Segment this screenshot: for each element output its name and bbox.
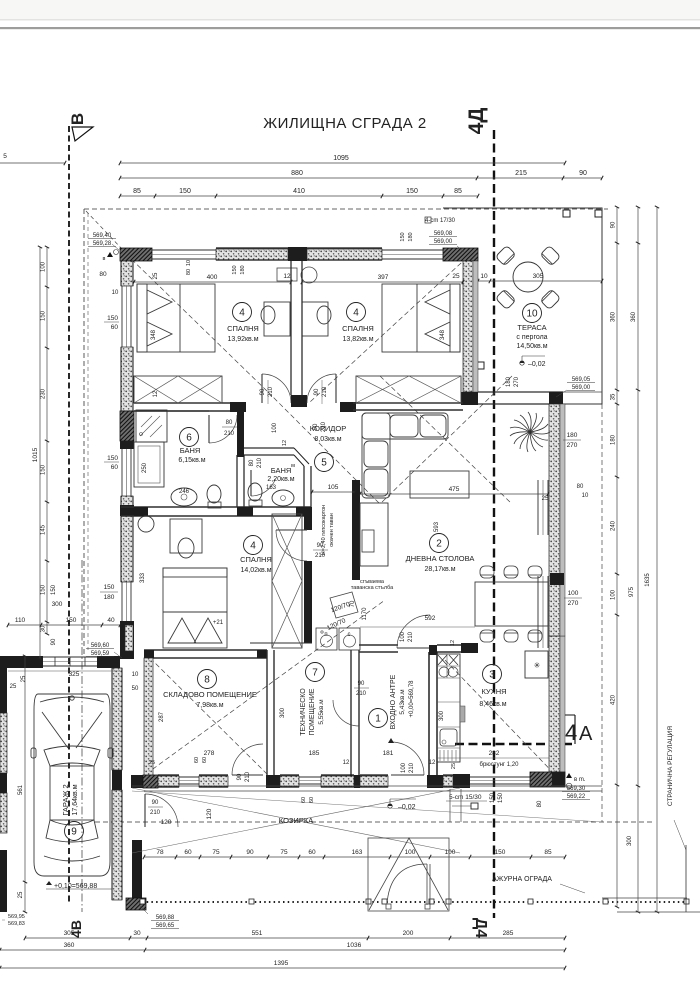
left dim chain outer 1015 (39, 247, 41, 659)
svg-text:80: 80 (99, 271, 107, 278)
svg-text:80: 80 (249, 459, 255, 466)
svg-text:40: 40 (107, 617, 115, 624)
room number 1 entry (369, 709, 388, 728)
svg-text:100: 100 (41, 261, 47, 272)
roof hip diagonal bedroom1 (120, 248, 268, 392)
svg-text:880: 880 (291, 170, 303, 177)
roof hip diagonal bedroom2 to terrace (310, 252, 473, 402)
storage left wall speckled (144, 658, 153, 776)
svg-text:90: 90 (314, 388, 320, 395)
svg-text:4: 4 (353, 308, 359, 319)
section line B vertical dashed (68, 126, 70, 905)
svg-text:210: 210 (150, 810, 161, 816)
kozirka side door arc (145, 794, 178, 827)
left wall block small (120, 441, 134, 449)
top wall window bedroom2 (382, 249, 443, 251)
room number 7 technical (306, 663, 325, 682)
svg-text:569,40: 569,40 (93, 233, 112, 239)
terrace slab outline (443, 208, 602, 404)
garage right wall black mid (112, 770, 122, 790)
svg-text:210: 210 (356, 691, 367, 697)
svg-text:90: 90 (611, 221, 617, 228)
svg-text:569,95: 569,95 (8, 914, 25, 920)
bottom dim row 1395 (0, 967, 565, 969)
svg-text:240: 240 (611, 520, 617, 531)
svg-text:278: 278 (204, 750, 215, 757)
svg-text:+21: +21 (213, 620, 224, 626)
svg-text:90: 90 (260, 388, 266, 395)
attic hatch 120-70 rhombus (330, 592, 358, 618)
svg-text:25: 25 (452, 273, 460, 280)
svg-text:569,59: 569,59 (91, 651, 110, 657)
right dim chain A 90 360 35 180 240 100 420 300 (616, 207, 618, 907)
svg-text:25: 25 (542, 496, 549, 502)
svg-text:150: 150 (107, 315, 118, 322)
svg-text:14,50кв.м: 14,50кв.м (516, 343, 547, 350)
svg-text:150: 150 (179, 188, 191, 195)
bedroom1 bed (137, 284, 215, 352)
svg-text:210: 210 (257, 457, 263, 468)
svg-text:13,82кв.м: 13,82кв.м (342, 336, 373, 343)
bottom wall window storage (179, 776, 199, 778)
left wall window bedroom1 (121, 286, 123, 347)
svg-text:–0,02: –0,02 (398, 804, 416, 811)
svg-text:ДНЕВНА СТОЛОВА: ДНЕВНА СТОЛОВА (406, 554, 475, 563)
svg-text:28,17кв.м: 28,17кв.м (424, 566, 455, 573)
kitchen left wall double (428, 652, 430, 776)
top wall speckled segment right (307, 249, 382, 260)
svg-text:8,03кв.м: 8,03кв.м (314, 436, 341, 443)
kitchen top wall double (437, 644, 473, 646)
svg-text:150: 150 (406, 188, 418, 195)
svg-text:Н=2,40 гипсокартон: Н=2,40 гипсокартон (321, 505, 327, 555)
bottom dim row 78 60 75 90 75 60 163 100 100 etc (144, 856, 565, 858)
svg-text:210: 210 (224, 431, 235, 437)
svg-text:78: 78 (156, 849, 164, 856)
living plant (510, 412, 550, 452)
svg-text:100: 100 (611, 589, 617, 600)
bedroom3 right wall upper with door (304, 507, 312, 530)
svg-text:12: 12 (429, 760, 436, 766)
svg-text:60: 60 (301, 797, 307, 803)
svg-text:25: 25 (10, 684, 17, 690)
pergola post left lower (477, 362, 484, 369)
room number 3 kitchen (483, 665, 502, 684)
svg-text:360: 360 (631, 311, 637, 322)
level marker bm right (566, 773, 572, 778)
svg-text:60: 60 (308, 849, 316, 856)
left wall bath window (121, 449, 123, 496)
svg-text:180: 180 (506, 376, 512, 387)
svg-text:80: 80 (186, 269, 192, 275)
svg-text:✳: ✳ (534, 661, 541, 670)
living-kitchen right wall speckled (549, 636, 560, 776)
svg-text:7: 7 (312, 668, 318, 679)
wall pier right of bedroom2 door (340, 402, 356, 412)
svg-text:150: 150 (41, 310, 47, 321)
dining table with chairs (475, 582, 548, 626)
garage right wall speckled lower (112, 790, 122, 900)
bottom wall speckle 6 (443, 776, 453, 787)
room number 4 bedroom2 (347, 303, 366, 322)
svg-text:в: в (103, 256, 106, 262)
pergola post top middle (563, 210, 570, 217)
svg-text:6: 6 (186, 433, 192, 444)
svg-text:210: 210 (408, 631, 414, 642)
storage top wall (144, 649, 267, 651)
svg-text:СПАЛНЯ: СПАЛНЯ (342, 324, 374, 333)
svg-text:1: 1 (375, 714, 381, 725)
bedroom2 wardrobe with X (356, 376, 461, 403)
top middle window dim 12 badge (277, 268, 297, 281)
svg-text:210: 210 (268, 386, 274, 397)
svg-text:181: 181 (383, 750, 394, 757)
svg-text:230: 230 (41, 388, 47, 399)
porch column 15-30 with leader (471, 803, 478, 809)
svg-text:КОЗИРКА: КОЗИРКА (279, 816, 313, 825)
svg-text:80: 80 (537, 800, 543, 807)
svg-text:окачен таван: окачен таван (329, 513, 335, 547)
gate structure (368, 838, 449, 911)
bottom wall speckle 4 (321, 776, 354, 787)
svg-text:120: 120 (206, 808, 213, 819)
svg-text:180: 180 (408, 232, 414, 241)
svg-text:569,30: 569,30 (567, 786, 586, 792)
roof overhang dashed outline left (83, 209, 85, 655)
right dim chain C 1635 (656, 207, 658, 912)
living room left wall black (352, 480, 360, 580)
garage left edge wall segments (0, 668, 7, 713)
svg-text:30: 30 (41, 625, 47, 632)
svg-text:180: 180 (240, 265, 246, 274)
kitchen counter along wall (437, 654, 460, 762)
room number 4 bedroom3 (244, 536, 263, 555)
wall center pier between bedroom doors (291, 395, 307, 407)
svg-text:В: В (68, 113, 87, 125)
svg-text:400: 400 (207, 274, 218, 281)
svg-text:БАНЯ: БАНЯ (271, 466, 292, 475)
svg-text:4Д: 4Д (465, 108, 488, 135)
svg-text:25: 25 (21, 675, 27, 682)
bottom wall window technical (299, 776, 321, 778)
dimension row 880 215 90 (120, 177, 602, 179)
svg-text:А: А (579, 723, 593, 745)
svg-text:10: 10 (132, 672, 139, 678)
svg-text:с пергола: с пергола (516, 334, 547, 341)
wall between bedrooms double line (290, 261, 292, 395)
technical door from entry (333, 700, 359, 726)
room number 8 storage (198, 670, 217, 689)
room number 9 garage (65, 822, 84, 841)
svg-text:305: 305 (533, 273, 544, 280)
svg-text:п: п (324, 632, 327, 638)
svg-text:150: 150 (41, 464, 47, 475)
svg-text:150: 150 (104, 584, 115, 591)
svg-text:100: 100 (405, 849, 416, 856)
svg-text:75: 75 (280, 849, 288, 856)
svg-text:в m.: в m. (574, 777, 586, 783)
svg-text:210: 210 (321, 421, 327, 432)
svg-text:1635: 1635 (645, 573, 651, 587)
top wall speckled segment left (216, 249, 288, 260)
canopy dashed line bottom (95, 821, 655, 823)
svg-text:360: 360 (611, 311, 617, 322)
car in garage (31, 694, 113, 876)
svg-text:90: 90 (237, 773, 243, 780)
bedroom3 right wall lower black (304, 561, 312, 643)
svg-text:13,92кв.м: 13,92кв.м (227, 336, 258, 343)
svg-text:100: 100 (401, 762, 407, 773)
svg-text:348: 348 (151, 329, 157, 340)
section line 4D vertical thick dashed (493, 130, 495, 918)
svg-text:250: 250 (142, 462, 148, 473)
svg-text:10: 10 (186, 260, 192, 266)
entry-living door 100 210 (397, 615, 430, 648)
kitchen lower square sink (440, 729, 457, 746)
svg-text:1015: 1015 (32, 447, 39, 462)
svg-text:150: 150 (498, 792, 504, 803)
svg-text:551: 551 (252, 930, 263, 937)
bath6 bathtub (134, 442, 164, 487)
svg-text:300: 300 (280, 707, 286, 718)
svg-text:4: 4 (239, 308, 245, 319)
bottom dim row 360 1036 (0, 949, 565, 951)
svg-text:60: 60 (111, 324, 119, 331)
svg-text:397: 397 (378, 274, 389, 281)
svg-text:100: 100 (272, 422, 278, 433)
svg-text:4: 4 (250, 541, 256, 552)
svg-text:1036: 1036 (347, 942, 362, 949)
svg-text:60: 60 (184, 849, 192, 856)
dimension stub left edge (0, 162, 65, 164)
bedroom1 door opening and leaf (262, 374, 291, 403)
roof hip diagonal storage down-right (150, 658, 267, 774)
svg-text:5: 5 (321, 458, 327, 469)
svg-text:100: 100 (400, 631, 406, 642)
svg-text:100: 100 (568, 590, 579, 597)
canopy post hatch block (126, 898, 146, 910)
bottom wall corner block kitchen (530, 772, 565, 787)
pergola post top right (595, 210, 602, 217)
svg-text:180: 180 (567, 432, 578, 439)
svg-text:90: 90 (152, 800, 159, 806)
svg-text:270: 270 (568, 600, 579, 607)
svg-text:150: 150 (107, 455, 118, 462)
garage level mark (46, 881, 52, 885)
svg-text:ВХОДНО АНТРЕ: ВХОДНО АНТРЕ (390, 674, 397, 729)
svg-text:75: 75 (212, 849, 220, 856)
kitchen stove burners (438, 655, 458, 665)
left wall speckled bath upper (121, 347, 133, 411)
svg-text:360: 360 (64, 942, 75, 949)
svg-text:ТЕРАСА: ТЕРАСА (517, 323, 546, 332)
svg-text:60: 60 (194, 757, 200, 763)
svg-text:4: 4 (565, 720, 577, 745)
svg-text:569,08: 569,08 (434, 231, 453, 237)
living room sofa L-shaped (362, 413, 448, 498)
bottom right dim line closure (617, 911, 700, 913)
svg-text:6,15кв.м: 6,15кв.м (178, 457, 205, 464)
svg-text:120: 120 (161, 819, 172, 826)
bedroom3 wardrobe X tall (272, 514, 302, 648)
kitchen sink double bowls (439, 667, 449, 677)
right wall bedroom2 bottom block (461, 392, 478, 405)
svg-text:80: 80 (226, 420, 233, 426)
svg-text:270: 270 (567, 442, 578, 449)
svg-text:300: 300 (439, 710, 445, 721)
svg-text:8,46кв.м: 8,46кв.м (479, 701, 506, 708)
entrance door opening (391, 742, 424, 775)
page header strip (0, 0, 700, 19)
left dim horizontal 110 150 40 (8, 624, 120, 626)
svg-text:569,65: 569,65 (156, 923, 175, 929)
svg-text:150: 150 (51, 584, 57, 595)
svg-text:10: 10 (112, 290, 119, 296)
terrace level mark -0.02 (520, 361, 524, 365)
svg-text:569,60: 569,60 (91, 643, 110, 649)
storage exterior door (232, 744, 263, 775)
svg-text:2,20кв.м: 2,20кв.м (267, 476, 294, 483)
svg-text:90: 90 (246, 849, 254, 856)
left wall dark hatch block at shower (120, 411, 134, 441)
living dim 475 (360, 493, 548, 495)
top wall corner block left (120, 248, 152, 261)
top wall center black pier (288, 247, 307, 261)
svg-text:300: 300 (627, 835, 633, 846)
svg-text:1095: 1095 (333, 155, 349, 162)
porch steps lines (449, 789, 451, 822)
garage right wall speckled upper (112, 668, 122, 770)
bottom wall small pier (354, 775, 360, 788)
svg-text:+0,00=569,78: +0,00=569,78 (409, 680, 415, 718)
svg-text:17,64кв.м: 17,64кв.м (72, 784, 79, 815)
fence dotted line azhurna ograda (142, 901, 686, 903)
garage house corner pier (120, 621, 134, 659)
svg-text:569,00: 569,00 (434, 239, 453, 245)
svg-text:3: 3 (489, 670, 495, 681)
bedroom2 desk and chair (302, 302, 328, 336)
bedroom2 dim 397 (302, 281, 463, 283)
svg-text:569,88: 569,88 (156, 915, 175, 921)
svg-text:14,02кв.м: 14,02кв.м (240, 567, 271, 574)
top-left bm marker (107, 252, 113, 257)
left wall bottom corner block (120, 649, 134, 659)
kitchen counter end strokes (440, 750, 456, 761)
svg-text:брюстунг 1,20: брюстунг 1,20 (480, 762, 520, 768)
svg-text:270: 270 (514, 376, 520, 387)
svg-text:25: 25 (451, 763, 457, 769)
svg-text:561: 561 (18, 784, 24, 795)
svg-text:569,00: 569,00 (572, 385, 591, 391)
svg-text:СКЛАДОВО ПОМЕЩЕНИЕ: СКЛАДОВО ПОМЕЩЕНИЕ (163, 690, 257, 699)
svg-text:7,98кв.м: 7,98кв.м (196, 702, 223, 709)
left wall speckled mid (121, 496, 133, 582)
roof valley diagonal living room X (380, 376, 512, 504)
bath6 toilet (207, 485, 221, 503)
svg-text:333: 333 (140, 572, 146, 583)
svg-text:185: 185 (309, 750, 320, 757)
roof hip diagonal kitchen (445, 660, 563, 783)
svg-text:КУХНЯ: КУХНЯ (481, 687, 506, 696)
room number 10 terrace (523, 304, 542, 323)
svg-text:35: 35 (611, 393, 617, 400)
small bath toilet (248, 483, 262, 501)
bedroom2 door opening and leaf (307, 374, 336, 403)
side regulation boundary line (685, 845, 687, 912)
garage top wall black right (97, 656, 120, 668)
right wall bedroom2 speckled band (463, 261, 473, 392)
svg-text:85: 85 (544, 849, 552, 856)
kitchen fridge (525, 651, 548, 678)
svg-text:80: 80 (577, 484, 584, 490)
svg-text:10: 10 (582, 493, 589, 499)
svg-text:180: 180 (104, 594, 115, 601)
svg-text:60: 60 (111, 464, 119, 471)
dining window 100-270 inset lines (537, 576, 539, 648)
svg-text:5,55кв.м: 5,55кв.м (318, 699, 325, 725)
left wall upper speckled (121, 261, 133, 286)
svg-text:25: 25 (149, 760, 155, 766)
svg-text:569,28: 569,28 (93, 241, 112, 247)
svg-text:12: 12 (450, 640, 456, 646)
svg-text:300: 300 (52, 601, 63, 608)
svg-text:246: 246 (179, 489, 190, 495)
svg-text:ЖИЛИЩНА СГРАДА 2: ЖИЛИЩНА СГРАДА 2 (263, 115, 426, 132)
svg-text:105: 105 (328, 484, 339, 491)
svg-text:90: 90 (313, 423, 319, 430)
roof hip diagonal corridor (268, 392, 381, 505)
dimension row 85 150 410 150 85 (120, 195, 478, 197)
room number 5 corridor (315, 453, 334, 472)
svg-text:410: 410 (293, 188, 305, 195)
roof overhang dashed outline top (84, 208, 608, 210)
svg-text:569,83: 569,83 (8, 921, 25, 927)
entrance level -0.02 (388, 804, 392, 808)
svg-text:90: 90 (51, 638, 57, 645)
wall stub bedroom3 bottom (250, 642, 312, 644)
svg-text:85: 85 (454, 188, 462, 195)
small bath sink (272, 490, 294, 506)
canopy diagonals kozirka (132, 788, 460, 853)
garage top wall black left (0, 656, 43, 668)
corridor-living opening dim 105 (312, 491, 355, 493)
terrace round table (513, 262, 543, 292)
svg-text:СТРАНИЧНА РЕГУЛАЦИЯ: СТРАНИЧНА РЕГУЛАЦИЯ (667, 726, 674, 806)
tv niche living wall (360, 503, 388, 566)
svg-text:8: 8 (204, 675, 210, 686)
bottom wall speckle 1 (158, 776, 179, 787)
svg-text:90: 90 (358, 681, 365, 687)
bottom wall black pier entry (427, 775, 443, 788)
svg-text:150: 150 (66, 617, 77, 624)
svg-text:200: 200 (403, 930, 414, 937)
svg-text:25: 25 (153, 272, 159, 279)
bedroom3 desk chair (170, 519, 202, 553)
svg-text:5-cm 15/30: 5-cm 15/30 (449, 794, 482, 801)
bath6 door wall and opening (134, 410, 209, 412)
svg-text:100: 100 (445, 849, 456, 856)
svg-text:215: 215 (515, 170, 527, 177)
svg-text:163: 163 (266, 485, 277, 491)
svg-text:287: 287 (159, 711, 165, 722)
svg-text:150: 150 (490, 792, 496, 803)
svg-text:593: 593 (434, 521, 440, 532)
room number 6 bath (180, 428, 199, 447)
porch slab line below wall (132, 785, 602, 787)
svg-text:5: 5 (3, 153, 7, 160)
living room coffee table (410, 471, 469, 498)
svg-text:ГАРАЖ 2: ГАРАЖ 2 (61, 784, 70, 815)
